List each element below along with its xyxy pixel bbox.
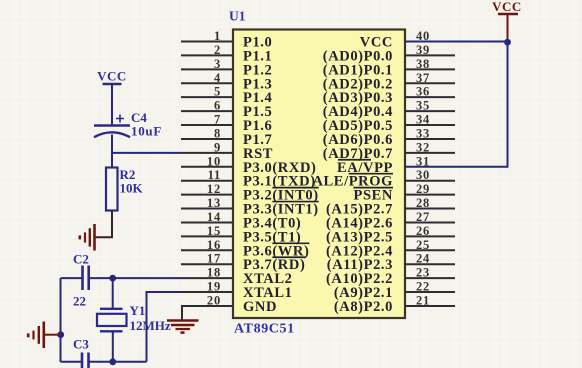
svg-text:12: 12 xyxy=(207,182,221,196)
svg-text:39: 39 xyxy=(416,43,430,57)
svg-text:VCC: VCC xyxy=(492,0,522,14)
wire: pin 36 stub (right) xyxy=(405,96,455,98)
wire: crystal bottom lead xyxy=(112,331,114,362)
svg-text:GND: GND xyxy=(243,299,277,315)
svg-text:22: 22 xyxy=(416,280,430,294)
wire: pin 25 stub (right) xyxy=(405,249,455,251)
svg-text:27: 27 xyxy=(416,210,430,224)
svg-text:29: 29 xyxy=(416,182,430,196)
svg-text:17: 17 xyxy=(207,252,221,266)
svg-text:30: 30 xyxy=(416,168,430,182)
svg-text:32: 32 xyxy=(416,140,430,154)
wire: C2 left to rail corner xyxy=(61,277,83,279)
svg-text:VCC: VCC xyxy=(97,69,127,84)
svg-text:16: 16 xyxy=(207,238,221,252)
wire: pin 4 stub (left) xyxy=(181,82,233,84)
svg-text:3: 3 xyxy=(214,57,221,71)
svg-text:22: 22 xyxy=(73,294,86,309)
svg-text:34: 34 xyxy=(416,113,430,127)
wire: XTAL1 net (pin 19) xyxy=(181,291,233,293)
svg-text:2: 2 xyxy=(214,43,221,57)
wire: pin 23 stub (right) xyxy=(405,277,455,279)
wire: pin 13 stub (left) xyxy=(181,208,233,210)
overline for active-low name on pin 17 xyxy=(272,256,305,258)
wire: pin 39 stub (right) xyxy=(405,54,455,56)
node: XTAL2 junction to crystal xyxy=(109,275,116,282)
wire: pin 2 stub (left) xyxy=(181,54,233,56)
node: crystal bottom junction xyxy=(109,358,116,365)
overline for active-low name on pin 31 xyxy=(338,159,371,161)
svg-text:7: 7 xyxy=(214,113,221,127)
svg-text:10: 10 xyxy=(207,154,221,168)
wire: pin 11 stub (left) xyxy=(181,180,233,182)
svg-text:35: 35 xyxy=(416,99,430,113)
svg-text:Y1: Y1 xyxy=(130,303,146,318)
wire: pin 10 stub (left) xyxy=(181,166,233,168)
svg-text:U1: U1 xyxy=(229,9,246,24)
resistor R2 10K xyxy=(111,153,113,168)
wire: pin 34 stub (right) xyxy=(405,124,455,126)
overline for active-low name on pin 13 xyxy=(272,201,318,203)
wire: pin 7 stub (left) xyxy=(181,124,233,126)
wire: pin 21 stub (right) xyxy=(405,305,455,307)
svg-text:40: 40 xyxy=(416,29,430,43)
wire: pin 5 stub (left) xyxy=(181,96,233,98)
overline for active-low name on pin 16 xyxy=(272,242,309,244)
svg-text:31: 31 xyxy=(416,154,430,168)
svg-text:24: 24 xyxy=(416,252,430,266)
wire: pin 22 stub (right) xyxy=(405,291,455,293)
svg-text:C3: C3 xyxy=(73,337,89,352)
svg-text:25: 25 xyxy=(416,238,430,252)
wire: GND net (pin 20) xyxy=(182,306,233,320)
wire: pin 31 EA/VPP net to VCC xyxy=(405,42,508,167)
wire: pin 29 stub (right) xyxy=(405,194,455,196)
overline for active-low name on pin 12 xyxy=(272,187,318,189)
svg-text:(A8)P2.0: (A8)P2.0 xyxy=(334,299,393,315)
wire: RST net (pin 9) xyxy=(112,152,181,154)
node: VCC junction at pin 40 xyxy=(504,39,511,46)
wire: pin 35 stub (right) xyxy=(405,110,455,112)
capacitor C3 22pF xyxy=(81,353,84,368)
wire: pin 6 stub (left) xyxy=(181,110,233,112)
svg-text:26: 26 xyxy=(416,224,430,238)
svg-text:15: 15 xyxy=(207,224,221,238)
wire: VCC to C4 xyxy=(111,84,113,126)
svg-text:10uF: 10uF xyxy=(131,124,162,139)
ground (pin 20) xyxy=(167,321,199,333)
wire: XTAL2 node down to crystal xyxy=(112,278,114,309)
svg-text:12MHz: 12MHz xyxy=(130,318,171,333)
svg-text:33: 33 xyxy=(416,126,430,140)
wire: pin 17 stub (left) xyxy=(181,263,233,265)
wire: pin 38 stub (right) xyxy=(405,68,455,70)
wire: bottom rail right of C3 xyxy=(89,361,147,363)
overline for active-low name on pin 29 xyxy=(354,187,394,189)
svg-text:4: 4 xyxy=(214,71,221,85)
wire: pin 12 stub (left) xyxy=(181,194,233,196)
svg-text:1: 1 xyxy=(214,29,221,43)
C4 plus sign xyxy=(116,115,124,123)
wire: pin 24 stub (right) xyxy=(405,263,455,265)
svg-text:28: 28 xyxy=(416,196,430,210)
IC U1 AT89C51 body xyxy=(233,30,405,319)
wire: left rail down to bottom xyxy=(60,278,62,362)
wire: pin 26 stub (right) xyxy=(405,235,455,237)
wire: pin 32 stub (right) xyxy=(405,152,455,154)
ground (R2) xyxy=(80,224,95,251)
svg-text:5: 5 xyxy=(214,85,221,99)
wire: pin 15 stub (left) xyxy=(181,235,233,237)
wire: pin 37 stub (right) xyxy=(405,82,455,84)
svg-text:8: 8 xyxy=(214,126,221,140)
wire: bottom rail left of C3 xyxy=(61,361,83,363)
svg-text:38: 38 xyxy=(416,57,430,71)
wire: pin 8 stub (left) xyxy=(181,138,233,140)
wire: pin 1 stub (left) xyxy=(181,41,233,43)
wire: pin 3 stub (left) xyxy=(181,68,233,70)
wire: pin 16 stub (left) xyxy=(181,249,233,251)
svg-text:6: 6 xyxy=(214,99,221,113)
wire: pin 40 VCC net xyxy=(405,41,508,43)
svg-text:23: 23 xyxy=(416,266,430,280)
svg-text:37: 37 xyxy=(416,71,430,85)
wire: rail to ground symbol xyxy=(45,334,61,336)
wire: pin 14 stub (left) xyxy=(181,221,233,223)
wire: R2 bottom to ground xyxy=(96,211,113,238)
svg-text:14: 14 xyxy=(207,210,221,224)
ground (left rail) xyxy=(28,322,44,349)
node: ground tap on rail xyxy=(57,331,64,338)
svg-text:13: 13 xyxy=(207,196,221,210)
wire: pin 30 stub (right) xyxy=(405,180,455,182)
svg-text:21: 21 xyxy=(416,293,430,307)
wire: pin 33 stub (right) xyxy=(405,138,455,140)
wire: VCC symbol to node xyxy=(507,14,509,42)
svg-text:10K: 10K xyxy=(120,181,144,196)
wire: pin 27 stub (right) xyxy=(405,221,455,223)
wire: XTAL2 net (pin 18) from C2 to chip xyxy=(89,277,181,279)
crystal Y1 12MHz xyxy=(100,308,123,310)
svg-text:36: 36 xyxy=(416,85,430,99)
wire: pin 28 stub (right) xyxy=(405,208,455,210)
svg-text:AT89C51: AT89C51 xyxy=(234,322,295,337)
capacitor C2 22pF xyxy=(81,266,84,291)
capacitor C4 (polarized 10uF) xyxy=(94,124,130,126)
wire: pin 20 stub (left) xyxy=(181,305,233,307)
svg-text:11: 11 xyxy=(208,168,221,182)
overline for active-low name on pin 30 xyxy=(349,173,393,175)
wire: C4 bottom to RST node xyxy=(111,135,113,153)
svg-text:C2: C2 xyxy=(73,252,89,267)
